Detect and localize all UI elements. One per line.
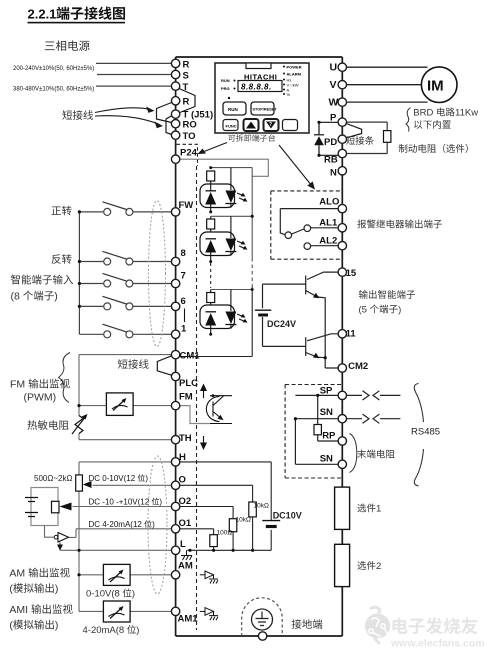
svg-text:POWER: POWER [287, 65, 302, 70]
svg-text:): ) [398, 305, 401, 316]
svg-text:380-480V±10%(50, 60Hz±5%): 380-480V±10%(50, 60Hz±5%) [13, 87, 94, 93]
svg-text:): ) [136, 625, 139, 636]
svg-text:): ) [55, 583, 59, 595]
svg-text:U: U [330, 62, 338, 74]
svg-text:O1: O1 [179, 518, 192, 529]
svg-text:FM: FM [10, 379, 25, 391]
svg-text:CM2: CM2 [348, 361, 368, 372]
svg-text:www.elecfans.com: www.elecfans.com [390, 638, 485, 650]
svg-text:(: ( [9, 583, 13, 595]
svg-text:10kΩ: 10kΩ [236, 516, 251, 523]
svg-text:PRG: PRG [221, 86, 230, 91]
svg-text:BRD: BRD [413, 108, 433, 119]
svg-text:6: 6 [181, 296, 186, 307]
svg-text:AL2: AL2 [319, 236, 337, 247]
svg-text:SP: SP [320, 386, 333, 397]
svg-text:RB: RB [324, 155, 338, 166]
svg-text:P24: P24 [180, 148, 198, 159]
svg-text:(PWM): (PWM) [24, 392, 57, 404]
svg-text:11: 11 [346, 329, 357, 340]
svg-text:0-10V(8: 0-10V(8 [86, 589, 120, 600]
svg-text:RUN: RUN [228, 107, 238, 112]
svg-text:): ) [132, 589, 135, 600]
svg-text:DC24V: DC24V [267, 319, 296, 329]
svg-text:SN: SN [320, 407, 333, 418]
svg-text:IM: IM [427, 78, 444, 95]
svg-text:15: 15 [346, 268, 357, 279]
svg-text:SN: SN [320, 454, 333, 465]
svg-text:(: ( [9, 620, 13, 632]
svg-text:DC -10 -+10V(12: DC -10 -+10V(12 [89, 498, 150, 507]
svg-text:%: % [287, 92, 291, 97]
svg-text:200-240V±10%(50, 60Hz±5%): 200-240V±10%(50, 60Hz±5%) [13, 66, 94, 72]
svg-text:RO: RO [183, 120, 197, 131]
svg-text:ALARM: ALARM [287, 72, 302, 77]
svg-text:11Kw: 11Kw [455, 108, 478, 119]
svg-text:PLC: PLC [179, 378, 198, 389]
svg-text:AM1: AM1 [178, 614, 199, 625]
svg-text:FUNC: FUNC [226, 124, 237, 129]
svg-text:W: W [329, 97, 339, 109]
svg-text:(8: (8 [11, 291, 20, 303]
svg-text:O: O [179, 475, 186, 486]
svg-text:2.2.1: 2.2.1 [28, 7, 57, 22]
svg-text:S: S [183, 70, 189, 81]
svg-text:AMI: AMI [9, 604, 28, 616]
svg-text:V: V [330, 79, 337, 91]
svg-text:DC 4-20mA(12: DC 4-20mA(12 [89, 520, 143, 529]
svg-text:T: T [183, 82, 189, 93]
svg-text:RS485: RS485 [411, 427, 440, 438]
svg-text:R: R [183, 59, 190, 70]
svg-text:CM1: CM1 [180, 351, 201, 362]
svg-text:100Ω: 100Ω [217, 530, 233, 537]
svg-text:DC10V: DC10V [273, 511, 302, 521]
svg-text:TH: TH [179, 433, 192, 444]
svg-text:?: ? [269, 122, 272, 128]
svg-text:): ) [54, 291, 58, 303]
svg-text:P: P [330, 113, 337, 124]
svg-text:FM: FM [179, 392, 193, 403]
svg-text:PD: PD [324, 137, 337, 148]
svg-text:TO: TO [183, 131, 196, 142]
svg-text:1: 1 [376, 504, 381, 515]
svg-text:RUN: RUN [221, 78, 230, 83]
svg-text:AM: AM [9, 568, 25, 580]
svg-text:10kΩ: 10kΩ [254, 503, 269, 510]
svg-text:): ) [152, 520, 155, 529]
svg-text:AM: AM [178, 561, 193, 572]
svg-text:H: H [179, 452, 186, 463]
svg-text:1: 1 [181, 324, 187, 335]
svg-text:8.8.8.8.: 8.8.8.8. [241, 83, 272, 92]
svg-text:FW: FW [179, 200, 194, 211]
svg-text:DC 0-10V(12: DC 0-10V(12 [89, 474, 136, 483]
svg-text:N: N [330, 168, 337, 179]
svg-text:AL1: AL1 [319, 218, 338, 229]
svg-text:): ) [145, 474, 148, 483]
svg-text:ALO: ALO [319, 196, 339, 207]
svg-text:RP: RP [322, 431, 336, 442]
svg-text:L: L [180, 539, 186, 550]
svg-text:2: 2 [376, 561, 381, 572]
svg-text:7: 7 [181, 271, 186, 282]
svg-text:): ) [159, 498, 162, 507]
svg-text:STOP/RESET: STOP/RESET [253, 108, 278, 112]
svg-text:): ) [55, 620, 59, 632]
svg-text:4-20mA(8: 4-20mA(8 [83, 625, 125, 636]
svg-text:(5: (5 [359, 305, 367, 316]
svg-text:8: 8 [181, 248, 186, 259]
svg-text:O2: O2 [179, 496, 192, 507]
svg-text:500Ω~2kΩ: 500Ω~2kΩ [34, 474, 72, 483]
svg-text:R: R [183, 97, 190, 108]
